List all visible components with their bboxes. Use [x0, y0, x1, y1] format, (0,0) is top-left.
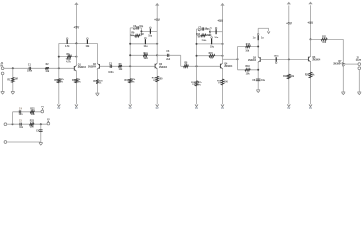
svg-text:R22: R22	[30, 108, 35, 110]
resistor R4 value2	[78, 82, 81, 84]
svg-text:R10: R10	[125, 80, 130, 82]
node power join E	[288, 58, 290, 60]
test pin TP6 label	[210, 46, 215, 48]
test pin TP5 label	[214, 37, 218, 39]
capacitor C8 stage4	[256, 79, 261, 81]
capacitor C5 sub bottom	[20, 123, 21, 126]
sub bottom end label2	[48, 121, 50, 123]
node feedback right stage1	[75, 56, 77, 58]
ground stage4	[256, 90, 260, 93]
svg-text:1k: 1k	[99, 83, 102, 85]
resistor R8 label	[184, 62, 188, 64]
svg-text:0V: 0V	[129, 107, 132, 110]
svg-text:10k: 10k	[246, 73, 251, 75]
resistor R10 label	[125, 80, 130, 82]
svg-text:R21: R21	[322, 37, 327, 39]
ground R4	[75, 104, 78, 110]
resistor R3 base Q1	[58, 79, 61, 83]
power +5V arrow stage2	[155, 3, 159, 6]
capacitor C4 sub top	[19, 110, 20, 113]
wire power column E upper	[288, 5, 290, 59]
capacitor C8 label	[252, 80, 256, 82]
sub port pin C	[4, 123, 7, 126]
resistor R11 label	[144, 53, 149, 55]
test pin TP7 label right	[261, 37, 264, 39]
svg-text:+5V: +5V	[154, 18, 161, 22]
svg-text:+5V: +5V	[217, 19, 224, 23]
resistor R21 output	[321, 38, 327, 40]
wire stage4 column upper	[257, 28, 259, 57]
resistor R12 label	[152, 78, 157, 80]
ground R16	[221, 104, 224, 110]
transistor Q3 label	[159, 64, 163, 66]
test pin TP4 label	[144, 46, 149, 48]
test pin TP8 down	[275, 57, 277, 63]
svg-text:100: 100	[224, 81, 229, 83]
svg-text:1%: 1%	[60, 82, 63, 84]
svg-text:2N3904: 2N3904	[78, 66, 87, 69]
node feedback left stage1	[58, 56, 60, 58]
power +5V arrow F	[308, 2, 312, 5]
resistor R12 label2	[153, 80, 156, 82]
node rail right stage2	[156, 43, 158, 45]
wire feedback row stage1	[59, 56, 77, 58]
capacitor C6 value	[166, 59, 171, 61]
resistor R17 value	[245, 51, 250, 53]
wire input signal	[4, 67, 74, 69]
wire input return	[2, 75, 4, 92]
capacitor C3 value	[139, 26, 144, 28]
wire rect bottom stage3	[197, 34, 211, 36]
wire power column F	[310, 5, 312, 39]
svg-text:R18: R18	[245, 66, 250, 68]
transistor Q2 type	[88, 66, 97, 69]
svg-text:4.7k: 4.7k	[65, 45, 70, 48]
wire emitter Q2	[96, 69, 98, 93]
resistor R10 value	[132, 78, 136, 81]
wire stage4 arrow stem	[268, 28, 270, 31]
capacitor C2 label	[109, 64, 113, 66]
capacitor C3 label2	[133, 28, 137, 31]
test pin TP4	[145, 37, 147, 44]
sub bottom end label	[47, 119, 50, 121]
wire collector Q1	[75, 43, 77, 65]
resistor R14 label	[196, 33, 201, 36]
wire output top row	[311, 38, 344, 40]
wire rect right stage3	[209, 29, 211, 35]
resistor R12 emitter Q3	[156, 76, 159, 82]
svg-text:1%: 1%	[153, 80, 156, 82]
svg-text:R15: R15	[209, 53, 214, 55]
resistor R9 label	[131, 33, 135, 35]
wire emitter Q4	[222, 69, 224, 105]
svg-text:+5V: +5V	[74, 26, 81, 30]
node base stage3	[196, 65, 198, 67]
ground R3	[57, 104, 60, 110]
sub top end label2	[42, 108, 44, 111]
capacitor C9 sub	[39, 130, 43, 132]
resistor R5 value	[66, 59, 72, 61]
transistor Q3	[155, 63, 157, 69]
resistor R13 value2	[198, 84, 201, 86]
resistor R7 value	[99, 80, 103, 82]
resistor R18 lower	[245, 69, 250, 71]
capacitor C2 value	[108, 72, 114, 74]
capacitor C6	[167, 54, 168, 57]
resistor R22 value	[31, 114, 36, 116]
transistor Q6 label	[312, 57, 316, 59]
svg-text:1u: 1u	[210, 28, 213, 30]
output port label	[356, 59, 362, 62]
power +5V label F	[307, 21, 314, 25]
wire feedback row stage3	[197, 55, 223, 57]
transistor Q2	[97, 64, 100, 70]
ground R7	[96, 93, 100, 96]
resistor R23 sub bottom	[30, 123, 34, 125]
sub top end label	[41, 106, 44, 108]
node split	[237, 58, 239, 60]
transistor Q7	[343, 62, 346, 67]
capacitor C9 label	[36, 131, 40, 133]
svg-text:2N3904: 2N3904	[312, 59, 321, 62]
transistor Q2 label	[93, 64, 97, 66]
capacitor C1 label	[28, 65, 32, 67]
capacitor C5 value	[19, 127, 24, 129]
svg-text:100n: 100n	[108, 72, 114, 74]
resistor R7 emitter Q2	[96, 80, 99, 84]
capacitor C6 label	[166, 51, 170, 53]
node feedback left stage3	[196, 55, 198, 57]
wire collector column Q2	[96, 43, 98, 63]
test pin TP3	[150, 27, 152, 34]
node stub stage2	[140, 30, 142, 32]
svg-text:Q6: Q6	[312, 57, 316, 59]
svg-text:10p: 10p	[205, 28, 210, 30]
resistor R16 label2	[218, 83, 221, 85]
wire collector column Q4	[222, 44, 224, 63]
wire base column stage2	[129, 28, 131, 66]
output port pin 2	[358, 67, 361, 70]
transistor Q1	[74, 66, 76, 72]
power +5V arrow stage1	[74, 2, 78, 5]
resistor R22 sub top	[30, 111, 34, 113]
wire rail stage2	[130, 43, 157, 45]
ground R1	[11, 92, 15, 95]
svg-text:1M: 1M	[198, 36, 201, 38]
node rail right stage3	[222, 43, 224, 45]
resistor R20 emitter Q6	[309, 72, 312, 78]
wire base stage3 to ground	[196, 66, 198, 104]
ground input return	[1, 92, 5, 95]
resistor R19 value	[290, 76, 295, 78]
svg-text:0V: 0V	[57, 107, 60, 110]
test pin TP2	[87, 38, 89, 44]
svg-text:R11: R11	[144, 53, 149, 55]
capacitor C1 value	[27, 70, 33, 72]
transistor Q3 type	[159, 66, 168, 69]
wire split horizontal	[223, 58, 238, 60]
wire output return	[358, 70, 360, 92]
wire power column stage3	[222, 4, 224, 44]
svg-text:100: 100	[159, 79, 164, 81]
svg-text:C6: C6	[166, 51, 170, 53]
wire upper branch	[238, 46, 259, 48]
svg-text:10k: 10k	[31, 114, 36, 116]
capacitor C3 label	[133, 26, 137, 28]
wire rail stage1	[59, 42, 98, 44]
node sub cap junction	[40, 123, 42, 125]
wire stub stage2	[141, 30, 157, 32]
svg-text:1%: 1%	[218, 83, 221, 85]
capacitor C7 label2	[198, 29, 202, 32]
svg-text:R19: R19	[283, 76, 288, 78]
wire R1 to ground	[12, 68, 14, 91]
wire split vertical	[237, 47, 239, 70]
ground sub	[39, 143, 43, 146]
wire power column E lower	[288, 59, 290, 104]
node feedback right stage3	[222, 55, 224, 57]
test pin TP7	[257, 33, 259, 40]
wire rect right stage2	[140, 28, 142, 36]
resistor R1	[12, 77, 15, 82]
node upper branch join	[257, 46, 259, 48]
ground R12	[156, 104, 159, 110]
svg-text:2u2: 2u2	[166, 59, 171, 61]
resistor R1 value	[15, 79, 18, 81]
svg-text:1k: 1k	[312, 74, 315, 76]
resistor R8 value	[185, 65, 188, 67]
svg-text:1%: 1%	[192, 84, 195, 86]
resistor R5 feedback	[67, 55, 71, 57]
node rail left stage2	[129, 43, 131, 45]
svg-text:R20: R20	[305, 74, 310, 76]
svg-text:0V: 0V	[221, 107, 224, 110]
svg-text:10k: 10k	[290, 76, 295, 78]
test pin TP3 label	[148, 36, 153, 38]
resistor R3 value2	[60, 82, 63, 84]
resistor R7 value2	[99, 83, 102, 85]
svg-text:10p: 10p	[139, 26, 144, 28]
wire collector column Q3	[156, 44, 158, 64]
power +5V arrow E	[287, 2, 291, 5]
capacitor C7 rect stage3	[202, 27, 203, 30]
output port label J2	[356, 57, 359, 59]
output port pin 1	[358, 63, 361, 66]
resistor R14 rect stage3	[201, 34, 206, 36]
capacitor C2	[110, 65, 111, 68]
svg-text:Q4: Q4	[224, 62, 228, 65]
resistor R18 label	[245, 66, 250, 68]
resistor R6 label	[119, 64, 123, 66]
svg-text:10u: 10u	[148, 36, 153, 38]
resistor R7 label	[93, 81, 97, 83]
power +5V label E	[286, 21, 293, 25]
node lower branch join	[257, 69, 259, 71]
resistor R1 label	[7, 79, 11, 81]
resistor R20 label	[305, 74, 310, 76]
svg-text:4.7k: 4.7k	[66, 60, 71, 63]
wire power column stage1	[75, 4, 77, 43]
wire rect top stage2	[130, 27, 141, 29]
wire coupling row stage3	[157, 54, 181, 56]
svg-text:10k: 10k	[45, 71, 50, 73]
wire emitter Q3	[156, 69, 158, 105]
resistor R5 value2	[66, 60, 71, 63]
resistor R2 label	[46, 64, 50, 66]
ground R13	[195, 104, 198, 110]
wire coupling drop stage3	[180, 55, 182, 66]
capacitor C7 label	[198, 28, 202, 30]
wire collector column Q6	[310, 39, 312, 56]
ground Q7	[341, 92, 345, 95]
resistor R13 value	[198, 81, 202, 84]
wire sub return	[7, 141, 41, 143]
wire base stage2 to ground	[129, 66, 131, 104]
ground R10	[129, 104, 132, 110]
wire sub input	[7, 123, 13, 125]
test pin TP5	[215, 27, 217, 34]
resistor R21 value	[322, 42, 327, 44]
resistor R22 label	[30, 108, 35, 110]
resistor R10 base stage2	[129, 79, 132, 83]
resistor R15 label	[209, 53, 214, 55]
resistor R19 column E	[288, 74, 291, 79]
svg-text:0V: 0V	[156, 107, 159, 110]
resistor R8 base stage3	[184, 65, 189, 67]
wire stage4 column lower	[257, 62, 259, 89]
resistor R11 feedback stage2	[143, 54, 147, 56]
resistor R15 feedback stage3	[209, 55, 215, 57]
resistor R17 label	[246, 44, 251, 46]
svg-text:C8: C8	[252, 80, 256, 82]
resistor R5 label	[67, 54, 71, 56]
wire emitter Q6	[310, 62, 312, 105]
wire lower branch	[238, 69, 259, 71]
wire sub bottom row	[13, 123, 47, 125]
resistor R11 value	[144, 57, 149, 60]
wire rect bottom stage2	[130, 35, 141, 37]
resistor R13 base stage3	[195, 81, 198, 86]
input port J1 label	[1, 62, 4, 67]
svg-text:1u: 1u	[253, 37, 256, 39]
svg-text:2N3904: 2N3904	[248, 59, 257, 62]
resistor R10 value2	[132, 82, 135, 84]
wire base Q1 to ground	[58, 68, 60, 104]
test pin TP2 label	[85, 46, 90, 48]
ground output return	[357, 92, 361, 95]
transistor Q5 label	[253, 57, 257, 59]
power +5V label stage1	[74, 26, 81, 30]
svg-text:C4: C4	[19, 108, 23, 111]
svg-text:10u: 10u	[214, 37, 218, 39]
resistor R2	[45, 67, 48, 69]
svg-text:10n: 10n	[19, 114, 24, 116]
rect R below label stage3	[201, 40, 207, 42]
node input junction	[12, 67, 14, 69]
transistor Q4 type	[224, 65, 233, 68]
wire emitter Q1	[75, 71, 77, 104]
svg-text:+5V: +5V	[286, 21, 293, 25]
resistor R4 value	[78, 79, 81, 81]
capacitor C4 value	[19, 114, 24, 116]
svg-text:1%: 1%	[132, 82, 135, 84]
resistor R16 label	[217, 80, 222, 82]
resistor R12 value	[159, 79, 164, 81]
svg-text:2N3904: 2N3904	[88, 66, 97, 69]
capacitor C8 value	[261, 80, 266, 82]
svg-text:1M: 1M	[15, 79, 18, 81]
wire base Q2 row	[100, 65, 156, 67]
transistor Q1 label	[78, 64, 82, 66]
test pin TP6	[211, 37, 213, 45]
svg-text:10n: 10n	[19, 127, 24, 129]
transistor Q6	[308, 56, 310, 62]
wire sub top row	[13, 111, 41, 113]
resistor R3 label	[54, 80, 58, 82]
svg-text:10k: 10k	[245, 51, 250, 53]
svg-text:1%: 1%	[78, 82, 81, 84]
input port J1 pin 1	[1, 67, 4, 70]
transistor Q4	[220, 63, 222, 69]
svg-text:10u: 10u	[144, 46, 149, 48]
svg-text:2N3904: 2N3904	[333, 63, 342, 66]
capacitor C3 rect stage2	[137, 26, 138, 29]
resistor R16 value	[224, 81, 229, 83]
svg-text:4k9: 4k9	[144, 57, 149, 60]
wire stage4 top corner	[258, 27, 268, 29]
svg-text:+5V: +5V	[307, 21, 314, 25]
capacitor C7 value	[205, 28, 210, 30]
wire rect top stage3	[197, 28, 211, 30]
svg-text:R17: R17	[246, 44, 251, 46]
transistor Q5 type	[248, 59, 257, 62]
sub bottom end circle	[47, 122, 50, 125]
svg-text:100n: 100n	[27, 70, 33, 72]
resistor R9 label2	[130, 35, 135, 37]
node rail left stage3	[196, 43, 198, 45]
node feedback left stage2	[129, 54, 131, 56]
node rail power stage1	[75, 42, 77, 44]
resistor R23 label	[30, 121, 35, 123]
test pin TP1 label	[65, 45, 70, 48]
resistor R13 label	[191, 82, 196, 84]
resistor R14 label2	[198, 36, 201, 38]
svg-text:0V: 0V	[287, 107, 290, 110]
wire rail stage3	[197, 43, 223, 45]
resistor R6 value	[118, 69, 123, 71]
svg-text:C1: C1	[28, 65, 32, 67]
transistor Q6 type	[312, 59, 321, 62]
wire stub stage3	[210, 31, 223, 33]
transistor Q1 type	[78, 66, 87, 69]
resistor R18 value	[246, 73, 251, 75]
wire Q7 to port	[345, 63, 358, 65]
svg-text:2N3904: 2N3904	[159, 66, 168, 69]
sub top end circle	[41, 110, 44, 113]
resistor R14 value	[206, 35, 212, 37]
test pin TP8 label	[274, 56, 280, 58]
resistor R3 value	[60, 78, 64, 81]
power +5V label stage3	[217, 19, 224, 23]
svg-text:0V: 0V	[75, 107, 78, 110]
wire base column Q1	[58, 43, 60, 68]
wire Q5 base row	[260, 58, 308, 60]
wire feedback row stage2	[130, 54, 157, 56]
wire Q7 down	[342, 67, 344, 92]
wire base column stage3	[196, 29, 198, 66]
transistor Q7 type	[333, 63, 342, 66]
capacitor C4 label	[19, 108, 23, 111]
